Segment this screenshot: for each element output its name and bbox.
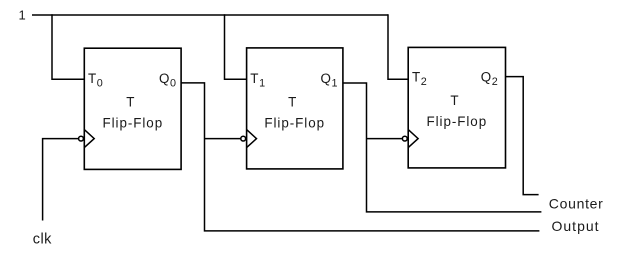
flip-flop U2 box xyxy=(247,48,343,169)
U1 clock inversion bubble xyxy=(79,136,84,141)
wire: Q0 branch to U2 clock xyxy=(205,138,241,140)
svg-text:T: T xyxy=(288,95,296,110)
wire: logic-1 top rail xyxy=(32,14,388,16)
wire: clk net xyxy=(43,139,79,221)
wire: rail end to T2 xyxy=(388,14,408,79)
wire: Q2 output net to Counter (upper) xyxy=(506,77,539,195)
svg-text:Flip-Flop: Flip-Flop xyxy=(264,116,325,131)
svg-text:Counter: Counter xyxy=(549,195,604,211)
U3 clock edge triangle xyxy=(408,130,418,148)
wire: rail branch to T0 xyxy=(52,14,84,79)
U3 clock inversion bubble xyxy=(402,136,407,141)
svg-text:Flip-Flop: Flip-Flop xyxy=(102,116,163,131)
svg-text:Output: Output xyxy=(552,218,600,234)
flip-flop U3 box xyxy=(408,47,505,167)
wire: Q1 branch to U3 clock xyxy=(367,138,403,140)
wire: rail branch to T1 xyxy=(225,14,247,79)
svg-text:T: T xyxy=(126,95,134,110)
svg-text:Flip-Flop: Flip-Flop xyxy=(426,114,487,129)
U2 clock edge triangle xyxy=(247,130,257,148)
U1 clock edge triangle xyxy=(84,130,94,148)
flip-flop U1 box xyxy=(84,48,181,169)
svg-text:clk: clk xyxy=(33,232,52,248)
U2 clock inversion bubble xyxy=(241,136,246,141)
wire: Q0 output net to Output xyxy=(181,83,539,231)
svg-text:1: 1 xyxy=(19,8,26,23)
svg-text:T: T xyxy=(450,93,458,108)
wire: Q1 output net to Counter (lower) xyxy=(343,83,541,212)
